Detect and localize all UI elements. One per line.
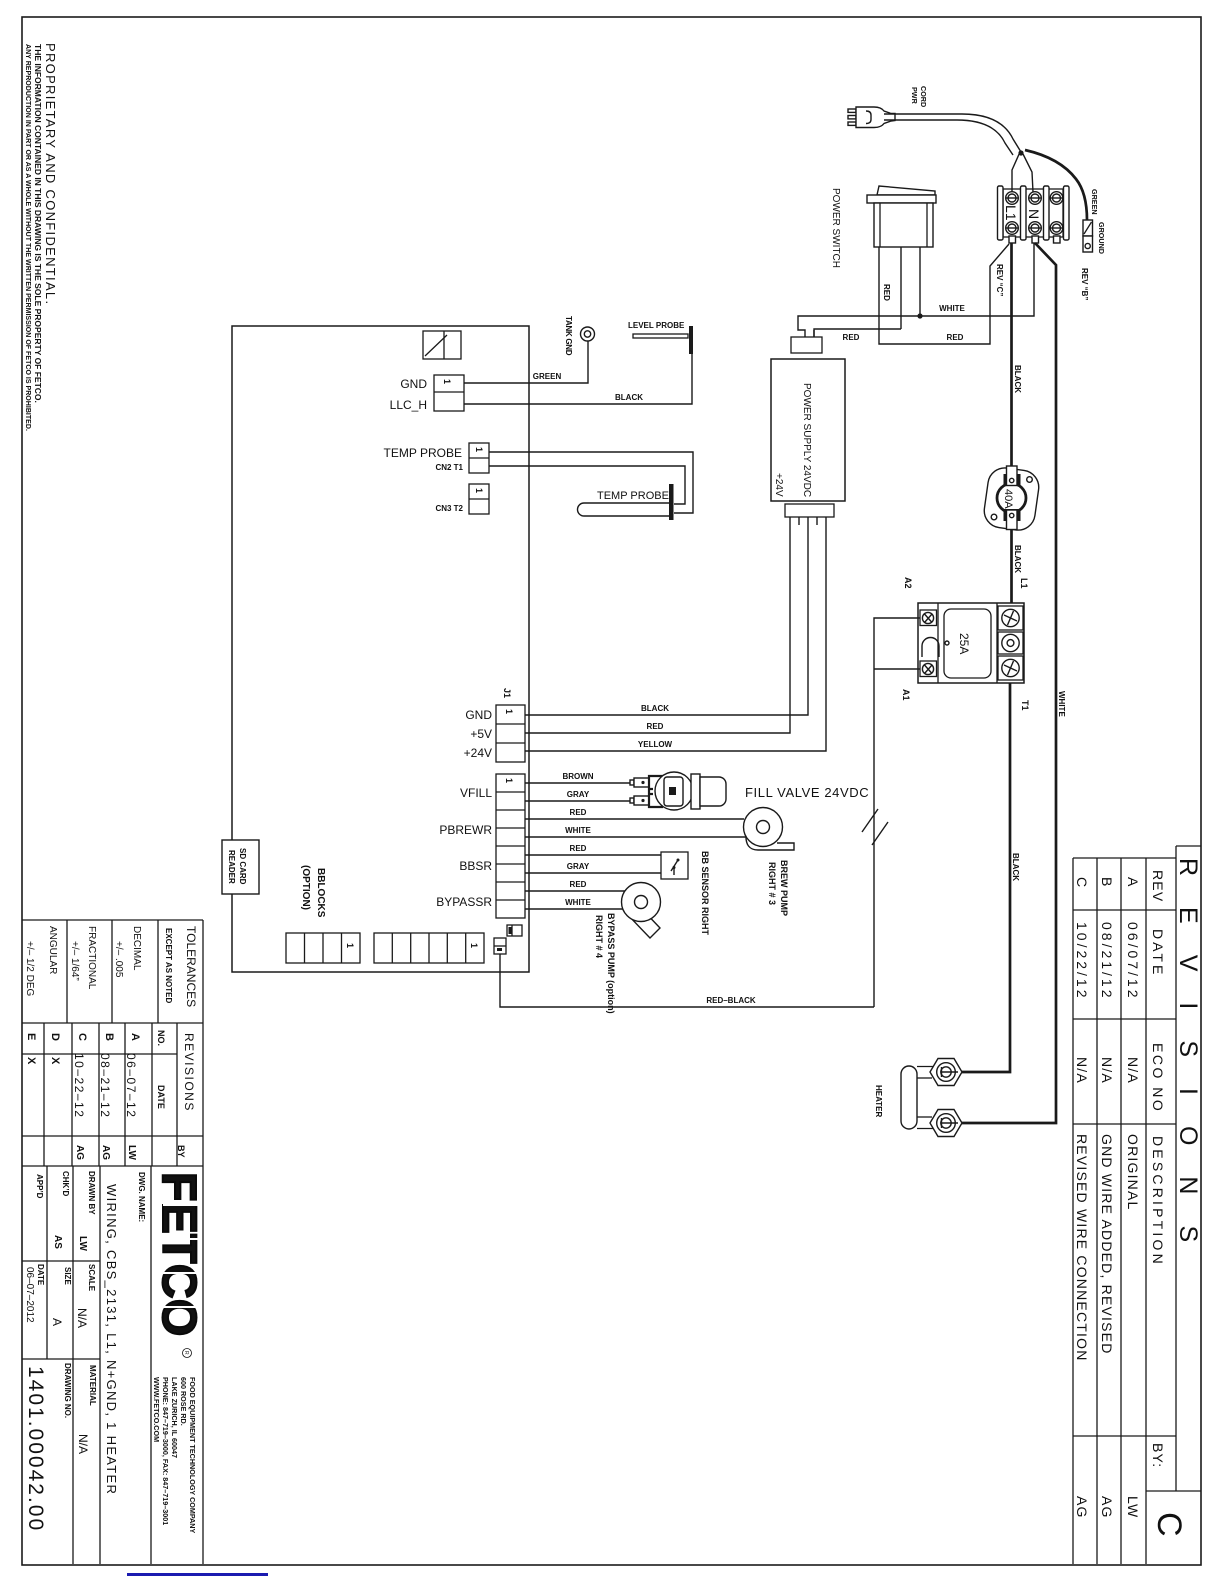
svg-text:ANY REPRODUCTION IN PART OR AS: ANY REPRODUCTION IN PART OR AS A WHOLE W…	[24, 44, 31, 431]
control board outline	[232, 326, 529, 972]
svg-text:N/A: N/A	[76, 1434, 90, 1454]
svg-text:CN2 T1: CN2 T1	[435, 463, 463, 472]
svg-text:THE INFORMATION CONTAINED IN T: THE INFORMATION CONTAINED IN THIS DRAWIN…	[33, 44, 43, 403]
svg-text:GREEN: GREEN	[1090, 189, 1099, 215]
svg-text:06–07–2012: 06–07–2012	[24, 1267, 35, 1323]
svg-text:N/A: N/A	[1074, 1057, 1090, 1084]
wire yellow J1	[525, 517, 826, 751]
svg-text:BBSR: BBSR	[459, 859, 492, 873]
svg-text:REVISIONS: REVISIONS	[182, 1033, 196, 1112]
terminal block rail 2	[1021, 186, 1027, 240]
screw L1 top	[1006, 192, 1019, 205]
black wire T1 to heater	[950, 683, 1010, 1072]
svg-text:GREEN: GREEN	[533, 372, 562, 381]
svg-text:WHITE: WHITE	[565, 898, 591, 907]
heater terminal bottom	[930, 1110, 962, 1137]
svg-text:T1: T1	[1020, 700, 1030, 711]
svg-text:FETCO: FETCO	[152, 1172, 205, 1337]
svg-text:APP’D: APP’D	[35, 1174, 44, 1199]
svg-text:NO.: NO.	[156, 1030, 166, 1046]
svg-text:LW: LW	[77, 1236, 88, 1252]
svg-text:WIRING, CBS_2131, L1, N+GND: WIRING, CBS_2131, L1, N+GND, 1 HEATER	[104, 1184, 119, 1495]
svg-text:PBREWR: PBREWR	[439, 823, 492, 837]
screw N top	[1029, 192, 1042, 205]
svg-text:BROWN: BROWN	[562, 772, 593, 781]
svg-text:RED–BLACK: RED–BLACK	[706, 996, 756, 1005]
white wire N to supply	[798, 243, 1034, 337]
power switch	[867, 186, 936, 247]
svg-text:RED: RED	[647, 722, 664, 731]
svg-text:1: 1	[345, 943, 355, 948]
svg-text:10/22/12: 10/22/12	[1074, 922, 1090, 1001]
screw G bottom	[1050, 222, 1063, 235]
svg-text:WHITE: WHITE	[1057, 691, 1066, 717]
svg-text:AG: AG	[74, 1145, 85, 1160]
svg-text:BB SENSOR RIGHT: BB SENSOR RIGHT	[700, 851, 710, 936]
power cord	[884, 114, 1021, 152]
svg-text:CORD: CORD	[919, 86, 928, 107]
wire white pbrewr	[525, 836, 746, 838]
svg-text:DWG. NAME:: DWG. NAME:	[137, 1172, 146, 1222]
svg-text:+24V: +24V	[773, 473, 784, 497]
svg-text:RED: RED	[570, 808, 587, 817]
svg-text:X: X	[25, 1057, 37, 1065]
svg-text:08–21–12: 08–21–12	[98, 1053, 112, 1118]
svg-text:E: E	[25, 1033, 37, 1040]
title block frame	[22, 920, 203, 1564]
wire brown	[525, 782, 633, 784]
relay 25A outline	[918, 603, 1024, 683]
svg-text:N/A: N/A	[75, 1308, 89, 1328]
svg-text:RED: RED	[947, 333, 964, 342]
FETCO logo	[152, 1172, 205, 1358]
svg-text:FOOD EQUIPMENT TECHNOLOGY C: FOOD EQUIPMENT TECHNOLOGY COMPANY	[188, 1377, 197, 1533]
svg-text:BLACK: BLACK	[641, 704, 669, 713]
bblocks strip 1	[286, 933, 360, 963]
coil wire A2/A1 red-black pair	[874, 618, 920, 1007]
svg-text:N/A: N/A	[1099, 1057, 1115, 1084]
ground lug	[1083, 220, 1093, 252]
power supply input connector	[791, 330, 822, 353]
svg-text:DATE: DATE	[1150, 929, 1166, 977]
relay right section divider	[996, 603, 998, 683]
revisions table frame	[1073, 846, 1201, 1564]
screw L1 bottom	[1006, 222, 1019, 235]
black wire breaker to relay	[1010, 530, 1013, 612]
svg-text:TOLERANCES: TOLERANCES	[184, 926, 198, 1007]
svg-text:1: 1	[442, 379, 452, 384]
svg-text:RIGHT # 3: RIGHT # 3	[767, 862, 777, 905]
wire to N terminal	[1023, 154, 1033, 192]
svg-text:CHK’D: CHK’D	[61, 1171, 70, 1197]
40A breaker	[982, 466, 1041, 533]
svg-text:1: 1	[474, 447, 484, 452]
svg-text:+24V: +24V	[464, 746, 492, 760]
bb sensor right	[661, 852, 688, 879]
coil wire A1 stub	[874, 668, 920, 670]
junction dot white/switch	[917, 313, 922, 318]
svg-text:RED: RED	[843, 333, 860, 342]
fill valve 24vdc	[630, 772, 726, 810]
wire black J1	[525, 517, 808, 715]
svg-text:TEMP PROBE: TEMP PROBE	[597, 490, 669, 502]
temp probe element	[578, 484, 674, 520]
wire to L1 terminal	[1012, 152, 1020, 192]
svg-text:BY: BY	[176, 1145, 186, 1158]
svg-text:1: 1	[474, 488, 484, 493]
svg-text:REV “C”: REV “C”	[995, 264, 1004, 296]
svg-text:BLACK: BLACK	[1013, 545, 1022, 573]
svg-text:R: R	[183, 1351, 189, 1355]
svg-text:TEMP PROBE: TEMP PROBE	[384, 446, 462, 460]
svg-text:+5V: +5V	[470, 727, 492, 741]
svg-text:LW: LW	[126, 1145, 137, 1161]
screw G top	[1050, 192, 1063, 205]
wire temp probe 1	[489, 452, 693, 513]
svg-text:B: B	[1099, 877, 1115, 888]
svg-text:RED: RED	[882, 284, 891, 301]
wire gray bbsr	[525, 872, 661, 874]
svg-text:SIZE: SIZE	[63, 1267, 72, 1285]
svg-text:+/– 1/64”: +/– 1/64”	[69, 941, 80, 981]
red jumper wire	[814, 329, 901, 337]
svg-text:RED: RED	[570, 844, 587, 853]
svg-text:A: A	[50, 1318, 64, 1326]
svg-text:PHONE: 847–719–3000, FAX: 8: PHONE: 847–719–3000, FAX: 847–719–3001	[161, 1377, 170, 1525]
svg-text:10–22–12: 10–22–12	[72, 1053, 86, 1118]
svg-text:RED: RED	[570, 880, 587, 889]
wire black to level probe	[464, 352, 692, 404]
aux connector on board	[494, 925, 522, 954]
svg-text:BYPASSR: BYPASSR	[436, 895, 492, 909]
svg-text:B: B	[103, 1033, 115, 1041]
bypass pump right #4	[622, 883, 661, 939]
svg-text:FILL VALVE 24VDC: FILL VALVE 24VDC	[745, 785, 869, 800]
svg-text:SD CARD: SD CARD	[238, 848, 247, 885]
svg-text:GROUND: GROUND	[1097, 222, 1106, 254]
svg-text:YELLOW: YELLOW	[638, 740, 673, 749]
svg-text:MATERIAL: MATERIAL	[88, 1365, 97, 1406]
wire white bypassr	[525, 908, 623, 910]
cord junction	[1018, 150, 1023, 155]
svg-text:25A: 25A	[957, 633, 971, 654]
svg-text:PWR: PWR	[910, 87, 919, 105]
white main wire	[950, 243, 1056, 1123]
svg-text:(OPTION): (OPTION)	[300, 865, 311, 910]
svg-text:WHITE: WHITE	[939, 304, 965, 313]
wire red pbrewr	[525, 818, 744, 820]
svg-text:600 ROSE RD.: 600 ROSE RD.	[179, 1377, 188, 1426]
svg-text:DATE: DATE	[36, 1264, 45, 1286]
svg-text:X: X	[49, 1057, 61, 1065]
svg-text:A: A	[1125, 877, 1141, 888]
svg-text:06/07/12: 06/07/12	[1125, 922, 1141, 1001]
svg-text:LAKE ZURICH, IL 60047: LAKE ZURICH, IL 60047	[170, 1377, 179, 1458]
svg-text:GND: GND	[400, 377, 427, 391]
brew pump right #3	[744, 808, 795, 851]
svg-text:DECIMAL: DECIMAL	[131, 926, 142, 971]
svg-text:C: C	[76, 1033, 88, 1041]
svg-text:WWW.FETCO.COM: WWW.FETCO.COM	[152, 1377, 161, 1442]
power supply box	[771, 359, 845, 501]
switch pins	[878, 247, 880, 265]
svg-text:TANK GND: TANK GND	[564, 316, 573, 356]
svg-text:BREW PUMP: BREW PUMP	[779, 860, 789, 916]
black wire L1 to breaker	[1010, 243, 1013, 466]
svg-text:N: N	[1026, 209, 1042, 219]
relay body 25A	[944, 609, 991, 678]
svg-text:1: 1	[504, 709, 514, 714]
svg-text:ECO NO: ECO NO	[1150, 1043, 1166, 1113]
svg-text:PROPRIETARY AND CONFIDENTIAL: PROPRIETARY AND CONFIDENTIAL.	[43, 43, 58, 305]
heater terminal top	[930, 1059, 962, 1086]
svg-text:L1: L1	[1003, 205, 1019, 221]
board polarity symbol	[423, 331, 461, 359]
relay coil symbol	[922, 638, 939, 658]
red wire L1 to switch	[879, 244, 1009, 344]
power supply output connector	[785, 504, 834, 525]
terminal block rail 3	[1044, 186, 1050, 240]
svg-text:EXCEPT AS NOTED: EXCEPT AS NOTED	[164, 928, 173, 1003]
svg-text:C: C	[1150, 1512, 1188, 1537]
svg-text:+/– 1/2 DEG: +/– 1/2 DEG	[24, 941, 35, 997]
wire green to tank gnd	[464, 341, 588, 383]
relay coil terminal A1	[920, 661, 937, 677]
svg-text:WHITE: WHITE	[565, 826, 591, 835]
svg-text:POWER SWITCH: POWER SWITCH	[830, 188, 841, 268]
blue underline mark	[127, 1573, 268, 1576]
sd card reader	[222, 840, 259, 894]
svg-text:LW: LW	[1125, 1496, 1141, 1518]
svg-text:1: 1	[504, 778, 514, 783]
svg-text:L1: L1	[1019, 578, 1029, 589]
svg-text:REV “B”: REV “B”	[1080, 268, 1089, 300]
svg-text:BLACK: BLACK	[615, 393, 643, 402]
connector CN2 T1	[469, 443, 489, 473]
screw N bottom	[1029, 222, 1042, 235]
svg-text:N/A: N/A	[1125, 1057, 1141, 1084]
svg-text:SCALE: SCALE	[87, 1264, 96, 1292]
svg-text:A2: A2	[903, 577, 913, 589]
svg-text:GND: GND	[465, 708, 492, 722]
heater element body	[901, 1066, 934, 1129]
wire temp probe 2	[489, 466, 685, 504]
svg-text:GRAY: GRAY	[567, 790, 590, 799]
connector VFILL/PBREWR/BBSR/BYPASSR	[496, 774, 525, 918]
svg-text:DATE: DATE	[156, 1085, 166, 1109]
wire red J1	[525, 517, 790, 733]
svg-text:C: C	[1074, 877, 1090, 888]
svg-text:J1: J1	[502, 688, 512, 698]
svg-text:POWER SUPPLY 24VDC: POWER SUPPLY 24VDC	[801, 383, 812, 497]
svg-text:REV: REV	[1150, 870, 1166, 902]
relay coil terminal A2	[920, 610, 937, 626]
connector CN3 T2	[469, 484, 489, 514]
svg-text:40A: 40A	[1002, 489, 1014, 509]
svg-text:06–07–12: 06–07–12	[124, 1053, 138, 1118]
svg-text:AG: AG	[1074, 1496, 1090, 1519]
svg-text:LEVEL PROBE: LEVEL PROBE	[628, 321, 685, 330]
power cord plug	[848, 107, 895, 128]
relay left section divider	[937, 603, 939, 683]
svg-text:ORIGINAL: ORIGINAL	[1125, 1134, 1141, 1211]
svg-text:AG: AG	[1099, 1496, 1115, 1519]
svg-text:ANGULAR: ANGULAR	[47, 926, 58, 974]
svg-text:DESCRIPTION: DESCRIPTION	[1150, 1136, 1166, 1267]
svg-text:CN3 T2: CN3 T2	[435, 504, 463, 513]
svg-text:1: 1	[469, 943, 479, 948]
svg-text:VFILL: VFILL	[460, 786, 492, 800]
svg-text:GND WIRE ADDED, REVISED: GND WIRE ADDED, REVISED	[1099, 1134, 1115, 1355]
svg-text:DRAWING NO.: DRAWING NO.	[63, 1363, 72, 1418]
relay terminal L1	[998, 606, 1023, 630]
terminal block rail 4	[1064, 186, 1070, 240]
svg-text:A1: A1	[901, 689, 911, 701]
svg-text:GRAY: GRAY	[567, 862, 590, 871]
connector J1	[496, 705, 525, 762]
tank gnd terminal	[581, 327, 595, 341]
svg-text:READER: READER	[227, 850, 236, 884]
level probe	[628, 321, 693, 354]
wire break slashes	[862, 809, 878, 832]
svg-text:REVISED WIRE CONNECTION: REVISED WIRE CONNECTION	[1074, 1134, 1090, 1362]
terminal block body	[1003, 189, 1063, 237]
wire gray	[525, 800, 633, 802]
terminal block rail 1	[998, 186, 1004, 240]
svg-text:HEATER: HEATER	[874, 1085, 883, 1118]
svg-text:BLACK: BLACK	[1013, 365, 1022, 393]
svg-text:1401.00042.00: 1401.00042.00	[24, 1366, 47, 1532]
svg-text:REVISIONS: REVISIONS	[1174, 858, 1202, 1273]
terminal tabs	[1009, 236, 1016, 243]
svg-text:A: A	[129, 1033, 141, 1041]
svg-text:BY:: BY:	[1150, 1443, 1166, 1468]
bblocks strip 2	[374, 933, 484, 963]
svg-text:BBLOCKS: BBLOCKS	[315, 868, 326, 918]
svg-text:DRAWN BY: DRAWN BY	[87, 1171, 96, 1215]
svg-text:BYPASS PUMP (option): BYPASS PUMP (option)	[606, 913, 616, 1014]
svg-text:BLACK: BLACK	[1011, 853, 1020, 881]
wire red bbsr	[525, 854, 661, 856]
svg-text:08/21/12: 08/21/12	[1099, 922, 1115, 1001]
svg-text:AS: AS	[52, 1235, 63, 1249]
relay center post	[998, 632, 1023, 654]
svg-text:LLC_H: LLC_H	[390, 398, 427, 412]
relay terminal T1	[998, 656, 1023, 680]
connector CN1 GND/LLC_H	[434, 375, 464, 411]
svg-text:RIGHT # 4: RIGHT # 4	[594, 915, 604, 958]
svg-text:AG: AG	[100, 1145, 111, 1160]
svg-text:D: D	[49, 1033, 61, 1041]
wire red bypassr	[525, 890, 625, 892]
switch pin wires	[878, 265, 880, 329]
svg-text:FRACTIONAL: FRACTIONAL	[86, 926, 97, 990]
ground wire to lug	[1025, 150, 1087, 220]
wire red-black	[500, 954, 874, 1007]
svg-text:+/– .005: +/– .005	[113, 941, 124, 978]
